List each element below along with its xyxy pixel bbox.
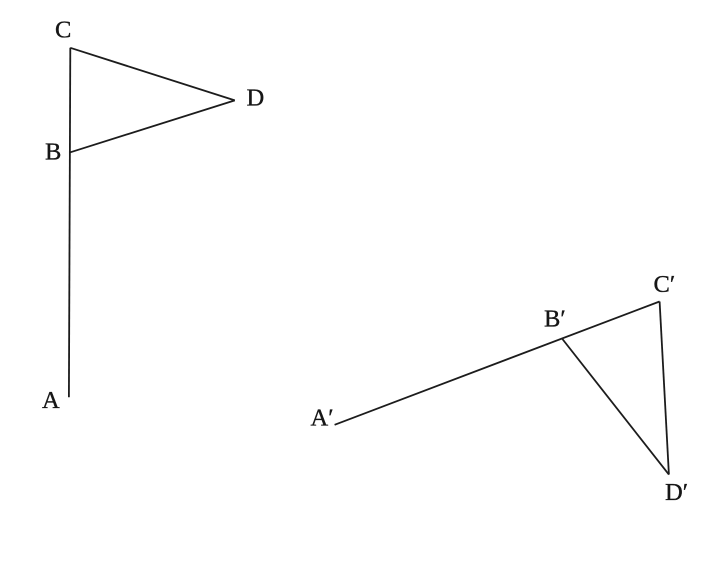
svg-text:A′: A′ <box>311 405 334 432</box>
svg-text:D: D <box>247 85 265 112</box>
svg-text:C: C <box>55 17 71 44</box>
wire: flag edge C'-D' (right figure) <box>660 302 669 475</box>
wire: flag pole segment A'-C' through B' (right figure) <box>335 302 660 425</box>
svg-text:C′: C′ <box>654 271 676 298</box>
svg-text:D′: D′ <box>665 479 688 506</box>
wire: flag edge B-D (left figure) <box>70 100 235 152</box>
svg-text:A: A <box>42 387 60 414</box>
svg-text:B: B <box>45 138 61 165</box>
svg-text:B′: B′ <box>544 305 566 332</box>
wire: flag pole segment A-C (left figure) <box>69 48 70 398</box>
wire: flag edge C-D (left figure) <box>70 48 235 101</box>
wire: flag edge B'-D' (right figure) <box>562 339 669 475</box>
